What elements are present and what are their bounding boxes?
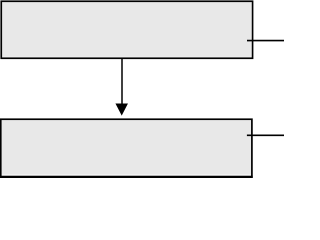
box 2 (bottom process box) border — [1, 119, 252, 177]
arrow from box 1 to box 2 — [116, 59, 127, 115]
box 1 (top process box) fill — [2, 2, 251, 57]
connector line from right edge of box 1 — [247, 40, 284, 42]
box 2 (bottom process box) fill — [2, 120, 251, 174]
box 1 (top process box) border — [1, 1, 252, 58]
connector line from right edge of box 2 — [247, 134, 284, 136]
box 2 thick bottom border clipped at image edge — [0, 176, 253, 178]
